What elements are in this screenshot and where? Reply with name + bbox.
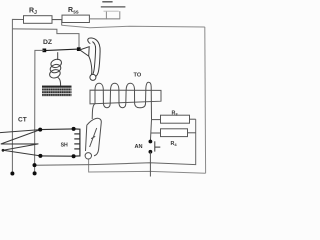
- ground plate long: [101, 6, 126, 8]
- node CT top: [38, 128, 42, 132]
- wire ground stem left: [105, 11, 107, 19]
- switch DZ blade: [44, 49, 78, 51]
- vane pivot circle: [85, 153, 91, 159]
- node CT bottom: [38, 154, 42, 158]
- wire R4 right: [188, 132, 196, 134]
- wire R4 left: [151, 132, 161, 134]
- node SH top: [72, 127, 76, 131]
- relay core block: [42, 86, 72, 97]
- ground plate faint: [104, 10, 119, 12]
- svg-text:TO: TO: [134, 73, 142, 79]
- moving element vane: [86, 118, 102, 156]
- node zigzag vertex: [2, 149, 5, 152]
- button AN contacts: [149, 140, 153, 154]
- transformer TO core: [90, 90, 161, 104]
- wire coil stem: [57, 52, 59, 60]
- label TO: [134, 73, 142, 79]
- svg-text:Rss: Rss: [68, 7, 79, 16]
- label R10: [68, 7, 79, 16]
- svg-text:R4: R4: [171, 141, 178, 147]
- armature pivot circle: [90, 74, 96, 80]
- svg-text:RJ: RJ: [29, 8, 37, 17]
- label AN: [135, 144, 143, 150]
- resistor R10: [62, 15, 89, 22]
- wire R3 left: [152, 119, 161, 121]
- button AN actuator: [155, 141, 161, 151]
- wire left border: [12, 19, 23, 173]
- svg-text:SH: SH: [61, 142, 68, 148]
- svg-text:CT: CT: [18, 116, 27, 123]
- relay coil spring: [49, 58, 63, 86]
- ground plate short: [102, 1, 112, 3]
- node terminal mid: [33, 171, 37, 175]
- resistor R4: [161, 129, 188, 137]
- wire CT to SH bottom: [40, 155, 73, 157]
- transformer CT zigzag: [0, 130, 40, 156]
- wire junction to top edge: [61, 20, 63, 26]
- armature pointer triangle: [80, 47, 89, 56]
- armature curved body: [88, 38, 100, 77]
- node SH bottom: [72, 154, 76, 158]
- wire button down: [149, 152, 151, 177]
- wire R3 right: [190, 118, 196, 120]
- transformer TO winding: [92, 82, 151, 119]
- label SH: [61, 142, 68, 148]
- svg-text:R3: R3: [172, 111, 179, 117]
- node bottom wire left: [33, 163, 37, 167]
- wire between R2 and R10: [52, 19, 62, 21]
- wire DZ left contact down: [35, 50, 45, 173]
- resistor R3: [161, 115, 190, 123]
- wire R10 to ground: [89, 18, 119, 20]
- wire bottom border: [89, 159, 206, 173]
- wire left top to DZ contact: [12, 29, 79, 49]
- label R4: [171, 141, 178, 147]
- resistor R2: [24, 16, 53, 24]
- svg-text:DZ: DZ: [43, 39, 52, 46]
- shunt SH winding: [74, 129, 80, 156]
- switch DZ left contact: [43, 49, 47, 53]
- wire ground stem right: [119, 11, 121, 19]
- wire CT to SH top: [40, 128, 73, 131]
- wire TO right tail down: [150, 120, 151, 142]
- label R2: [29, 8, 37, 17]
- switch DZ right contact: [77, 47, 81, 51]
- wire inner bottom: [35, 119, 196, 165]
- label DZ: [43, 39, 52, 46]
- label R3: [172, 111, 179, 117]
- wire top edge of enclosure: [62, 25, 205, 28]
- svg-text:AN: AN: [135, 144, 143, 150]
- wire right border: [204, 27, 207, 173]
- node terminal left: [10, 172, 14, 176]
- label CT: [18, 116, 27, 123]
